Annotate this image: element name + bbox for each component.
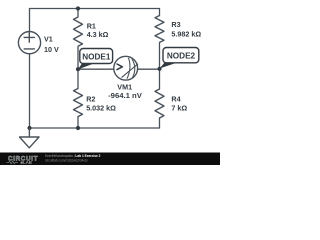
wire bottom rail [30,127,160,129]
watermark bar [0,153,220,166]
svg-text:R4: R4 [171,95,180,104]
svg-text:NODE1: NODE1 [82,52,111,61]
svg-text:R3: R3 [171,20,180,29]
svg-text:■LAB: ■LAB [20,160,32,165]
wire voltmeter right to node2 [138,68,160,70]
voltage source V1 [18,31,40,53]
svg-text:R2: R2 [86,95,95,104]
svg-text:R1: R1 [87,22,96,31]
resistor R1 [74,17,83,46]
wire R1 top stub [77,9,79,18]
junction node B (NODE2) [157,67,161,71]
resistor R3 [155,16,164,43]
svg-text:-964.1 nV: -964.1 nV [108,91,143,100]
voltmeter VM1 polarity mark [117,64,122,70]
resistor R2 [74,89,83,117]
wire top rail [30,8,160,10]
svg-text:7 kΩ: 7 kΩ [171,103,187,112]
svg-text:KeerthiKanchapatla | Lab 1 Exe: KeerthiKanchapatla | Lab 1 Exercise 2 [45,154,101,158]
junction bottom rail / R2 [76,126,80,130]
svg-text:NODE2: NODE2 [167,52,196,61]
junction top rail / R1 [76,6,80,10]
svg-text:4.3 kΩ: 4.3 kΩ [87,30,109,39]
wire R4 bottom stub [159,118,161,128]
svg-text:VM1: VM1 [117,82,132,91]
svg-text:V1: V1 [44,34,53,43]
svg-text:5.032 kΩ: 5.032 kΩ [86,104,116,113]
wire node1 to voltmeter left [78,68,114,70]
ground [20,128,40,148]
resistor R4 [155,89,164,118]
wire R2 bottom stub [77,117,79,129]
wire V1 bottom to bottom rail [29,54,31,128]
logo CircuitLab [7,155,39,165]
voltmeter VM1 [114,56,138,80]
wire R1 bottom to R2 top (node 1) [77,47,79,89]
wire R3 bottom to R4 top (node 2) [159,43,161,90]
node NODE2 flag [160,48,199,69]
svg-text:10 V: 10 V [44,45,59,54]
node NODE1 flag [78,49,113,70]
svg-text:5.982 kΩ: 5.982 kΩ [171,30,201,39]
junction bottom rail / ground [27,126,31,130]
svg-text:circuitlab.com/c/2rj2ws2r34ets: circuitlab.com/c/2rj2ws2r34ets [45,159,88,163]
wire V1 top to top rail [29,9,31,32]
junction node A (NODE1) [76,67,80,71]
wire R3 top stub [159,9,161,16]
